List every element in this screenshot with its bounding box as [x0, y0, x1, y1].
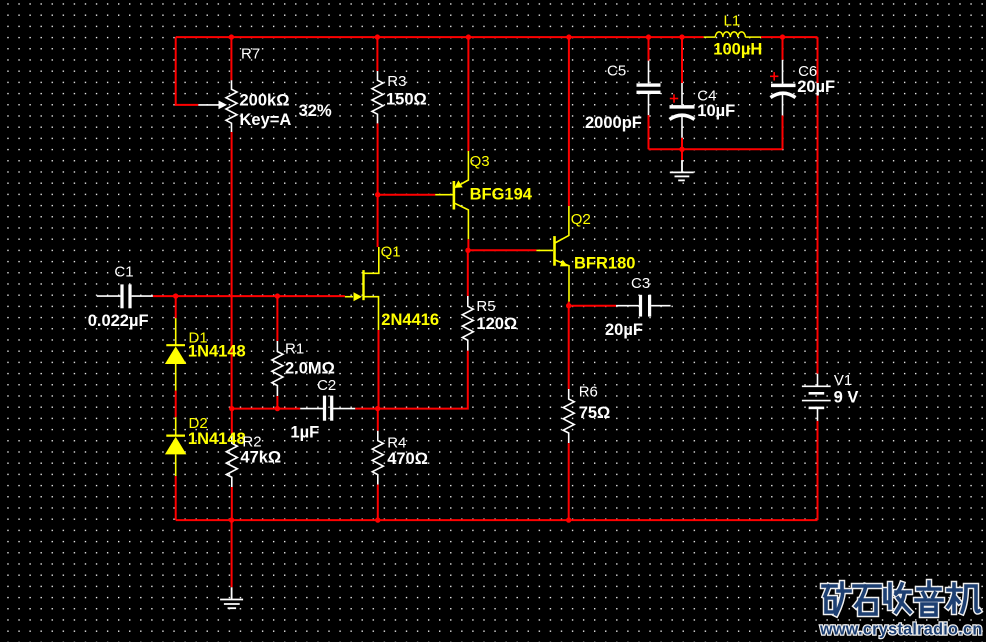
- svg-text:100µH: 100µH: [713, 41, 762, 59]
- node R7 top: [229, 34, 234, 39]
- wire Q3 collector lead: [467, 239, 469, 250]
- node C5 top: [646, 34, 651, 39]
- wire ground stem bottom: [231, 520, 233, 587]
- wire Q2 collector column: [568, 37, 570, 206]
- svg-text:BFR180: BFR180: [574, 254, 635, 272]
- node Q2 emitter / C3 / R6: [566, 303, 571, 308]
- svg-text:10µF: 10µF: [697, 102, 735, 120]
- svg-text:2N4416: 2N4416: [381, 311, 439, 329]
- capacitor C4 (polarized): [670, 83, 695, 138]
- wire Q3 base: [378, 194, 436, 196]
- svg-text:75Ω: 75Ω: [579, 404, 611, 422]
- svg-text:C3: C3: [631, 275, 650, 292]
- capacitor C2: [300, 396, 355, 421]
- capacitor C3: [616, 295, 671, 317]
- wire C4 bottom lead: [681, 138, 683, 150]
- svg-text:2.0MΩ: 2.0MΩ: [285, 360, 335, 378]
- svg-text:1µF: 1µF: [290, 424, 319, 442]
- node Q1 source / R4: [375, 406, 380, 411]
- wire C1 to gate net: [153, 295, 345, 297]
- wire Q2 base: [468, 249, 536, 251]
- resistor R3: [372, 71, 383, 123]
- wire R7 bottom column crossing C1 net: [231, 132, 233, 409]
- svg-text:470Ω: 470Ω: [387, 450, 428, 468]
- wire R7 feedback loop left side: [176, 37, 199, 105]
- node R3 top: [375, 34, 380, 39]
- wire Q1 source to C2 rail: [378, 330, 380, 409]
- wire D2 to bottom rail: [175, 476, 177, 520]
- wire ground stem LC block: [681, 149, 683, 160]
- svg-text:C5: C5: [607, 63, 626, 80]
- wire C4 top lead: [681, 37, 683, 83]
- plus sign C4: [670, 94, 678, 102]
- wire right column to battery: [817, 37, 819, 374]
- svg-text:20µF: 20µF: [797, 78, 835, 96]
- wire bottom rail: [176, 519, 818, 521]
- wire R4 top lead: [377, 409, 379, 431]
- wire R7 top lead: [230, 37, 232, 80]
- svg-text:C1: C1: [114, 263, 133, 280]
- svg-text:R6: R6: [579, 384, 598, 401]
- svg-text:1N4148: 1N4148: [188, 343, 246, 361]
- wire C2 rail right to R5: [355, 351, 468, 409]
- node bottom rail ground: [229, 517, 234, 522]
- diode D2: [165, 417, 187, 476]
- wire battery to bottom rail: [817, 421, 819, 520]
- svg-text:150Ω: 150Ω: [386, 91, 427, 109]
- wire D1-D2 link: [175, 391, 177, 418]
- svg-text:Q1: Q1: [381, 244, 401, 261]
- wire C5 top lead: [648, 37, 650, 61]
- wire top rail left of L1: [176, 36, 704, 38]
- transistor Q2 (NPN BFR180): [536, 206, 569, 302]
- wire C6 top lead: [782, 37, 784, 60]
- svg-text:Key=A: Key=A: [240, 111, 292, 129]
- wire R3 bottom to Q1 drain: [377, 123, 379, 247]
- wire R2 top lead: [231, 409, 233, 434]
- transistor Q1 (JFET 2N4416): [345, 247, 379, 330]
- svg-text:2000pF: 2000pF: [585, 114, 642, 132]
- potentiometer R7 wiper arrow: [198, 104, 219, 106]
- resistor R4: [372, 431, 383, 485]
- node R1 top: [275, 293, 280, 298]
- wire Q3 emitter column: [467, 37, 469, 151]
- node Q3 base: [375, 192, 380, 197]
- node R4 bottom: [375, 517, 380, 522]
- wire C2 rail left: [232, 408, 300, 410]
- svg-text:47kΩ: 47kΩ: [240, 449, 281, 467]
- wire Q2 emitter node to C3: [569, 305, 616, 307]
- diode D1: [165, 318, 187, 391]
- wire C5 bottom lead: [648, 115, 650, 149]
- svg-text:Q3: Q3: [470, 153, 490, 170]
- wire R1 top lead: [276, 296, 278, 341]
- battery V1: [802, 374, 831, 421]
- node C2 rail left: [229, 406, 234, 411]
- wire R3 top lead: [376, 37, 378, 71]
- node C4 bottom / ground: [679, 147, 684, 152]
- resistor R2: [226, 434, 237, 487]
- svg-text:R3: R3: [387, 73, 406, 90]
- node C1-D1: [173, 293, 178, 298]
- wire top rail right of L1: [761, 36, 818, 38]
- node C6 top: [780, 34, 785, 39]
- wire R5 top lead: [467, 250, 469, 296]
- capacitor C5: [637, 61, 661, 116]
- svg-text:1N4148: 1N4148: [188, 430, 246, 448]
- svg-text:0.022µF: 0.022µF: [88, 312, 149, 330]
- plus sign C6: [770, 72, 778, 80]
- capacitor C1: [97, 284, 153, 308]
- ground below bottom rail: [220, 587, 243, 608]
- inductor L1: [704, 32, 761, 37]
- potentiometer R7: [226, 80, 237, 132]
- wire R6 top lead: [568, 302, 570, 389]
- svg-text:BFG194: BFG194: [470, 186, 533, 204]
- wire C6 bottom lead: [782, 115, 784, 149]
- wire R1 bottom lead: [276, 396, 278, 409]
- wire R4 bottom lead: [377, 485, 379, 521]
- svg-text:www.crystalradio.cn: www.crystalradio.cn: [819, 621, 983, 639]
- WATERMARK crystalradio logo: [819, 582, 983, 639]
- node Q2 collector top: [566, 34, 571, 39]
- svg-text:Q2: Q2: [571, 211, 591, 228]
- wire R2 bottom lead: [231, 487, 233, 520]
- capacitor C6 (polarized): [771, 60, 796, 116]
- node C4 top: [679, 34, 684, 39]
- resistor R1: [272, 341, 283, 396]
- node R1 bottom: [275, 406, 280, 411]
- node Q3 emitter top: [466, 34, 471, 39]
- transistor Q3 (PNP BFG194): [435, 151, 468, 239]
- svg-text:R7: R7: [241, 46, 260, 63]
- svg-text:C2: C2: [317, 377, 336, 394]
- svg-text:32%: 32%: [299, 102, 332, 120]
- resistor R5: [462, 296, 473, 351]
- svg-text:L1: L1: [724, 13, 741, 30]
- svg-text:V1: V1: [834, 372, 852, 389]
- node R6 bottom: [566, 517, 571, 522]
- node Q3 collector / Q2 base / R5: [465, 248, 470, 253]
- wire D1 top lead: [175, 296, 177, 318]
- wire R6 bottom lead: [568, 443, 570, 520]
- svg-text:R5: R5: [476, 298, 495, 315]
- svg-text:200kΩ: 200kΩ: [240, 91, 290, 109]
- ground below LC block: [670, 160, 694, 180]
- COMPONENTS: [198, 71, 574, 487]
- svg-text:R1: R1: [285, 341, 304, 358]
- wire LC block bottom rail: [649, 148, 783, 150]
- resistor R6: [563, 389, 574, 443]
- svg-text:9 V: 9 V: [834, 389, 859, 407]
- svg-text:120Ω: 120Ω: [476, 315, 517, 333]
- svg-text:20µF: 20µF: [605, 321, 643, 339]
